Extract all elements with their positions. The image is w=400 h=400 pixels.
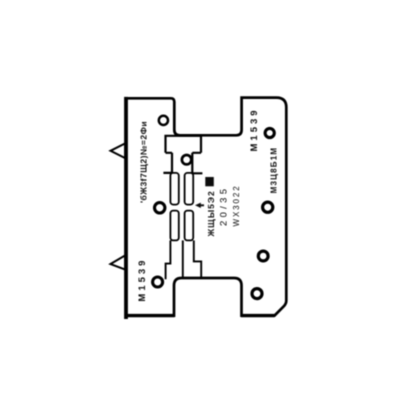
wire lower column right outer [194, 240, 201, 277]
svg-text:M1539: M1539 [249, 107, 260, 151]
node hole H3 mid-left [155, 203, 165, 213]
wire lower column left outer [166, 240, 171, 279]
node slot 1 upper segment [170, 173, 178, 205]
node plate outline [126, 98, 286, 316]
node slot 1 lower segment [170, 211, 178, 241]
node slot 2 lower segment [185, 211, 194, 241]
node pointer arrow to slot [198, 204, 205, 206]
wire shoulder ticks [163, 172, 202, 175]
node datum triangle lower [111, 255, 126, 269]
wire neck sides [172, 153, 192, 174]
node datum triangle upper [111, 143, 126, 158]
node hole H6 right-mid [263, 202, 273, 212]
wire lower column middle divider [182, 240, 184, 277]
svg-text:20/35: 20/35 [219, 186, 230, 226]
wire left thick vertical cut line [124, 97, 128, 319]
node hole H7 right-lower [258, 251, 268, 261]
capacitor C2 column circle [182, 155, 191, 164]
svg-text:M3Ц8Б1M: M3Ц8Б1M [270, 147, 279, 194]
node hole H5 right-top [265, 128, 274, 137]
node slot 2 upper segment [185, 173, 194, 205]
node hole H1 top-left [159, 116, 168, 125]
node label T5a square marker [205, 177, 214, 186]
svg-text:M1539: M1539 [137, 258, 148, 302]
svg-text:ЖЩЫ5Э2: ЖЩЫ5Э2 [206, 190, 216, 237]
node T-head block of center column [166, 136, 202, 153]
svg-text:WX3022: WX3022 [232, 184, 241, 226]
svg-text:'бЖ3f7Щ2)№=2Фи: 'бЖ3f7Щ2)№=2Фи [139, 121, 149, 203]
node hole H4 bottom-left [153, 277, 163, 287]
wire bottom edge thick [125, 314, 275, 317]
node hole H8 right-bottom [252, 289, 262, 299]
